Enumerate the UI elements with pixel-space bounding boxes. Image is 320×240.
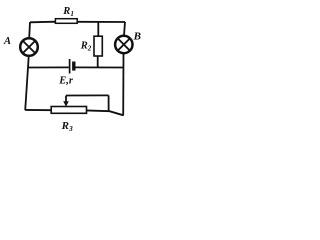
wire: middle horizontal right (battery to right wire) xyxy=(76,66,124,68)
wire: right vertical upper (top corner down to lamp B) xyxy=(124,22,125,35)
svg-text:R2: R2 xyxy=(80,40,92,52)
wire: R2 top lead xyxy=(97,22,99,37)
rheostat slider arrow xyxy=(63,96,69,107)
resistor R1 xyxy=(55,19,77,24)
svg-text:E,r: E,r xyxy=(58,75,74,86)
wire: bottom horizontal left (corner to R3) xyxy=(25,109,52,111)
battery E,r xyxy=(70,59,74,74)
lamp B xyxy=(115,36,132,53)
wire: right vertical lower (lamp B to bottom-right corner) xyxy=(122,54,124,116)
lamp A xyxy=(20,38,38,56)
svg-text:A: A xyxy=(3,36,11,47)
wire: top horizontal (node between lamp A and R1, continuing to lamp B) xyxy=(30,21,125,24)
wire: slider tap vertical drop xyxy=(108,95,110,111)
svg-text:R3: R3 xyxy=(61,120,73,133)
wire: left vertical lower (lamp A to bottom-left corner) xyxy=(25,57,29,111)
rheostat R3 body xyxy=(51,107,86,114)
resistor R2 xyxy=(94,36,102,56)
wire: middle horizontal left (left wire to battery) xyxy=(28,66,69,68)
wire: bottom horizontal right (R3 to bottom-right corner) xyxy=(86,110,124,115)
svg-text:B: B xyxy=(133,30,141,42)
wire: slider tap horizontal xyxy=(66,94,109,96)
wire: R2 bottom lead xyxy=(97,56,99,68)
wire: left vertical upper (top corner down to lamp A) xyxy=(28,22,31,38)
svg-text:R1: R1 xyxy=(62,6,74,18)
